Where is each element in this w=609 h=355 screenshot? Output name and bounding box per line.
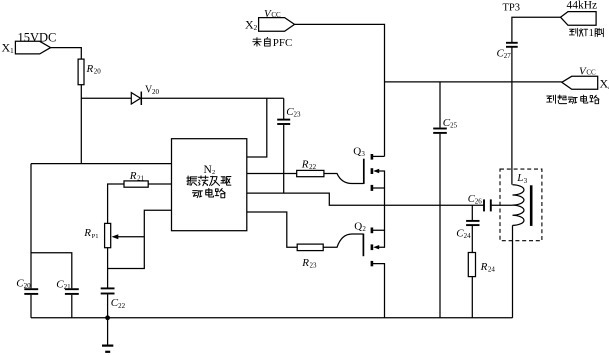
svg-text:24: 24 <box>464 232 472 240</box>
resistor R24 <box>468 253 495 277</box>
svg-text:20: 20 <box>152 88 160 96</box>
svg-text:25: 25 <box>450 122 458 130</box>
svg-text:20: 20 <box>24 282 32 290</box>
wire N2 pin2 to midpoint line <box>247 193 484 205</box>
bottom rail <box>31 317 513 319</box>
dashed enclosure L3 <box>500 169 542 241</box>
svg-text:3: 3 <box>361 150 365 158</box>
svg-text:20: 20 <box>94 68 102 76</box>
capacitor C26 <box>468 194 513 211</box>
svg-text:2: 2 <box>362 225 366 233</box>
svg-text:21: 21 <box>137 175 145 183</box>
capacitor C22 <box>101 288 126 317</box>
svg-text:L: L <box>516 172 523 184</box>
wire R21 right to N2 <box>148 183 171 185</box>
svg-text:15VDC: 15VDC <box>18 30 57 44</box>
svg-text:R: R <box>301 257 309 269</box>
transistor Q2 <box>354 205 384 317</box>
wire N2 pin4 to R23 <box>247 212 297 247</box>
wire diode cathode to C23 corner <box>141 97 283 99</box>
Vcc rail top right <box>385 81 562 83</box>
svg-text:2: 2 <box>212 169 215 176</box>
capacitor C25 <box>433 82 457 318</box>
svg-text:44kHz: 44kHz <box>567 0 598 12</box>
connector 44kHz to lamp pin1 <box>561 0 604 39</box>
wire TP3 column down to L3 <box>511 82 513 185</box>
wire R23 to Q2 gate <box>323 234 363 247</box>
svg-text:24: 24 <box>488 265 496 273</box>
svg-text:22: 22 <box>309 163 317 171</box>
svg-text:23: 23 <box>310 261 318 269</box>
svg-text:1: 1 <box>589 28 594 39</box>
wire R22 to Q3 gate <box>324 174 364 184</box>
capacitor C27 <box>497 43 518 60</box>
svg-text:Q: Q <box>354 221 362 233</box>
wire branch down to N2 right pin1 <box>247 98 267 157</box>
svg-text:21: 21 <box>64 283 72 291</box>
capacitor C24 <box>456 205 479 252</box>
svg-text:CC: CC <box>586 69 596 77</box>
svg-text:R: R <box>83 227 91 239</box>
svg-text:26: 26 <box>475 198 483 206</box>
svg-text:R: R <box>301 159 309 171</box>
ground <box>102 318 113 352</box>
svg-text:R: R <box>129 170 137 182</box>
svg-text:PFC: PFC <box>273 37 293 49</box>
svg-text:P1: P1 <box>92 233 99 240</box>
wire R20 bottom down to N2 pin line <box>80 85 82 164</box>
connector X4 Vcc to start circuit <box>547 66 609 104</box>
capacitor C23 <box>277 98 301 193</box>
wire left branch down to C20 <box>30 164 32 289</box>
block N2 oscillation and drive circuit <box>172 139 247 231</box>
node junction C22-rail <box>105 315 110 320</box>
inductor L3 <box>513 172 528 225</box>
capacitor C21 <box>56 278 79 317</box>
wire R24 to rail <box>471 277 473 318</box>
capacitor C20 <box>16 277 38 318</box>
diode V20 <box>131 85 159 105</box>
resistor R22 <box>297 159 324 177</box>
svg-text:3: 3 <box>524 177 528 185</box>
svg-text:TP3: TP3 <box>503 3 521 14</box>
wire X2 to Q3 drain <box>295 24 385 156</box>
svg-text:27: 27 <box>504 52 512 60</box>
wire C20-C21 link <box>31 253 72 289</box>
wire N2 left pin1 <box>31 163 172 165</box>
transistor Q3 <box>353 146 384 206</box>
svg-text:R: R <box>480 261 488 273</box>
svg-text:R: R <box>86 63 94 75</box>
svg-text:2: 2 <box>254 23 258 32</box>
wire N2 pin to R22 <box>247 173 297 175</box>
connector X1 15VDC <box>2 30 57 55</box>
svg-text:22: 22 <box>118 302 126 310</box>
core bar <box>530 185 533 226</box>
potentiometer Rp1 <box>83 223 144 247</box>
connector X2 Vcc from PFC <box>245 8 295 49</box>
resistor R23 <box>297 244 323 269</box>
wire N2 pin3 to wiper bus <box>108 210 172 268</box>
wire L3 bottom to rail <box>512 225 514 317</box>
wire R21 left to Rp1 top <box>108 184 124 223</box>
resistor R21 <box>124 170 148 187</box>
resistor R20 <box>78 59 101 85</box>
svg-text:CC: CC <box>271 11 281 19</box>
wire Rp1 bottom lead <box>107 248 109 289</box>
svg-text:1: 1 <box>10 46 14 55</box>
svg-text:Q: Q <box>353 146 361 158</box>
wire X1 to R20 top <box>51 48 82 60</box>
test point TP3 wire <box>512 17 561 43</box>
svg-text:23: 23 <box>294 110 302 118</box>
wire diode row from R20 column <box>81 97 131 99</box>
